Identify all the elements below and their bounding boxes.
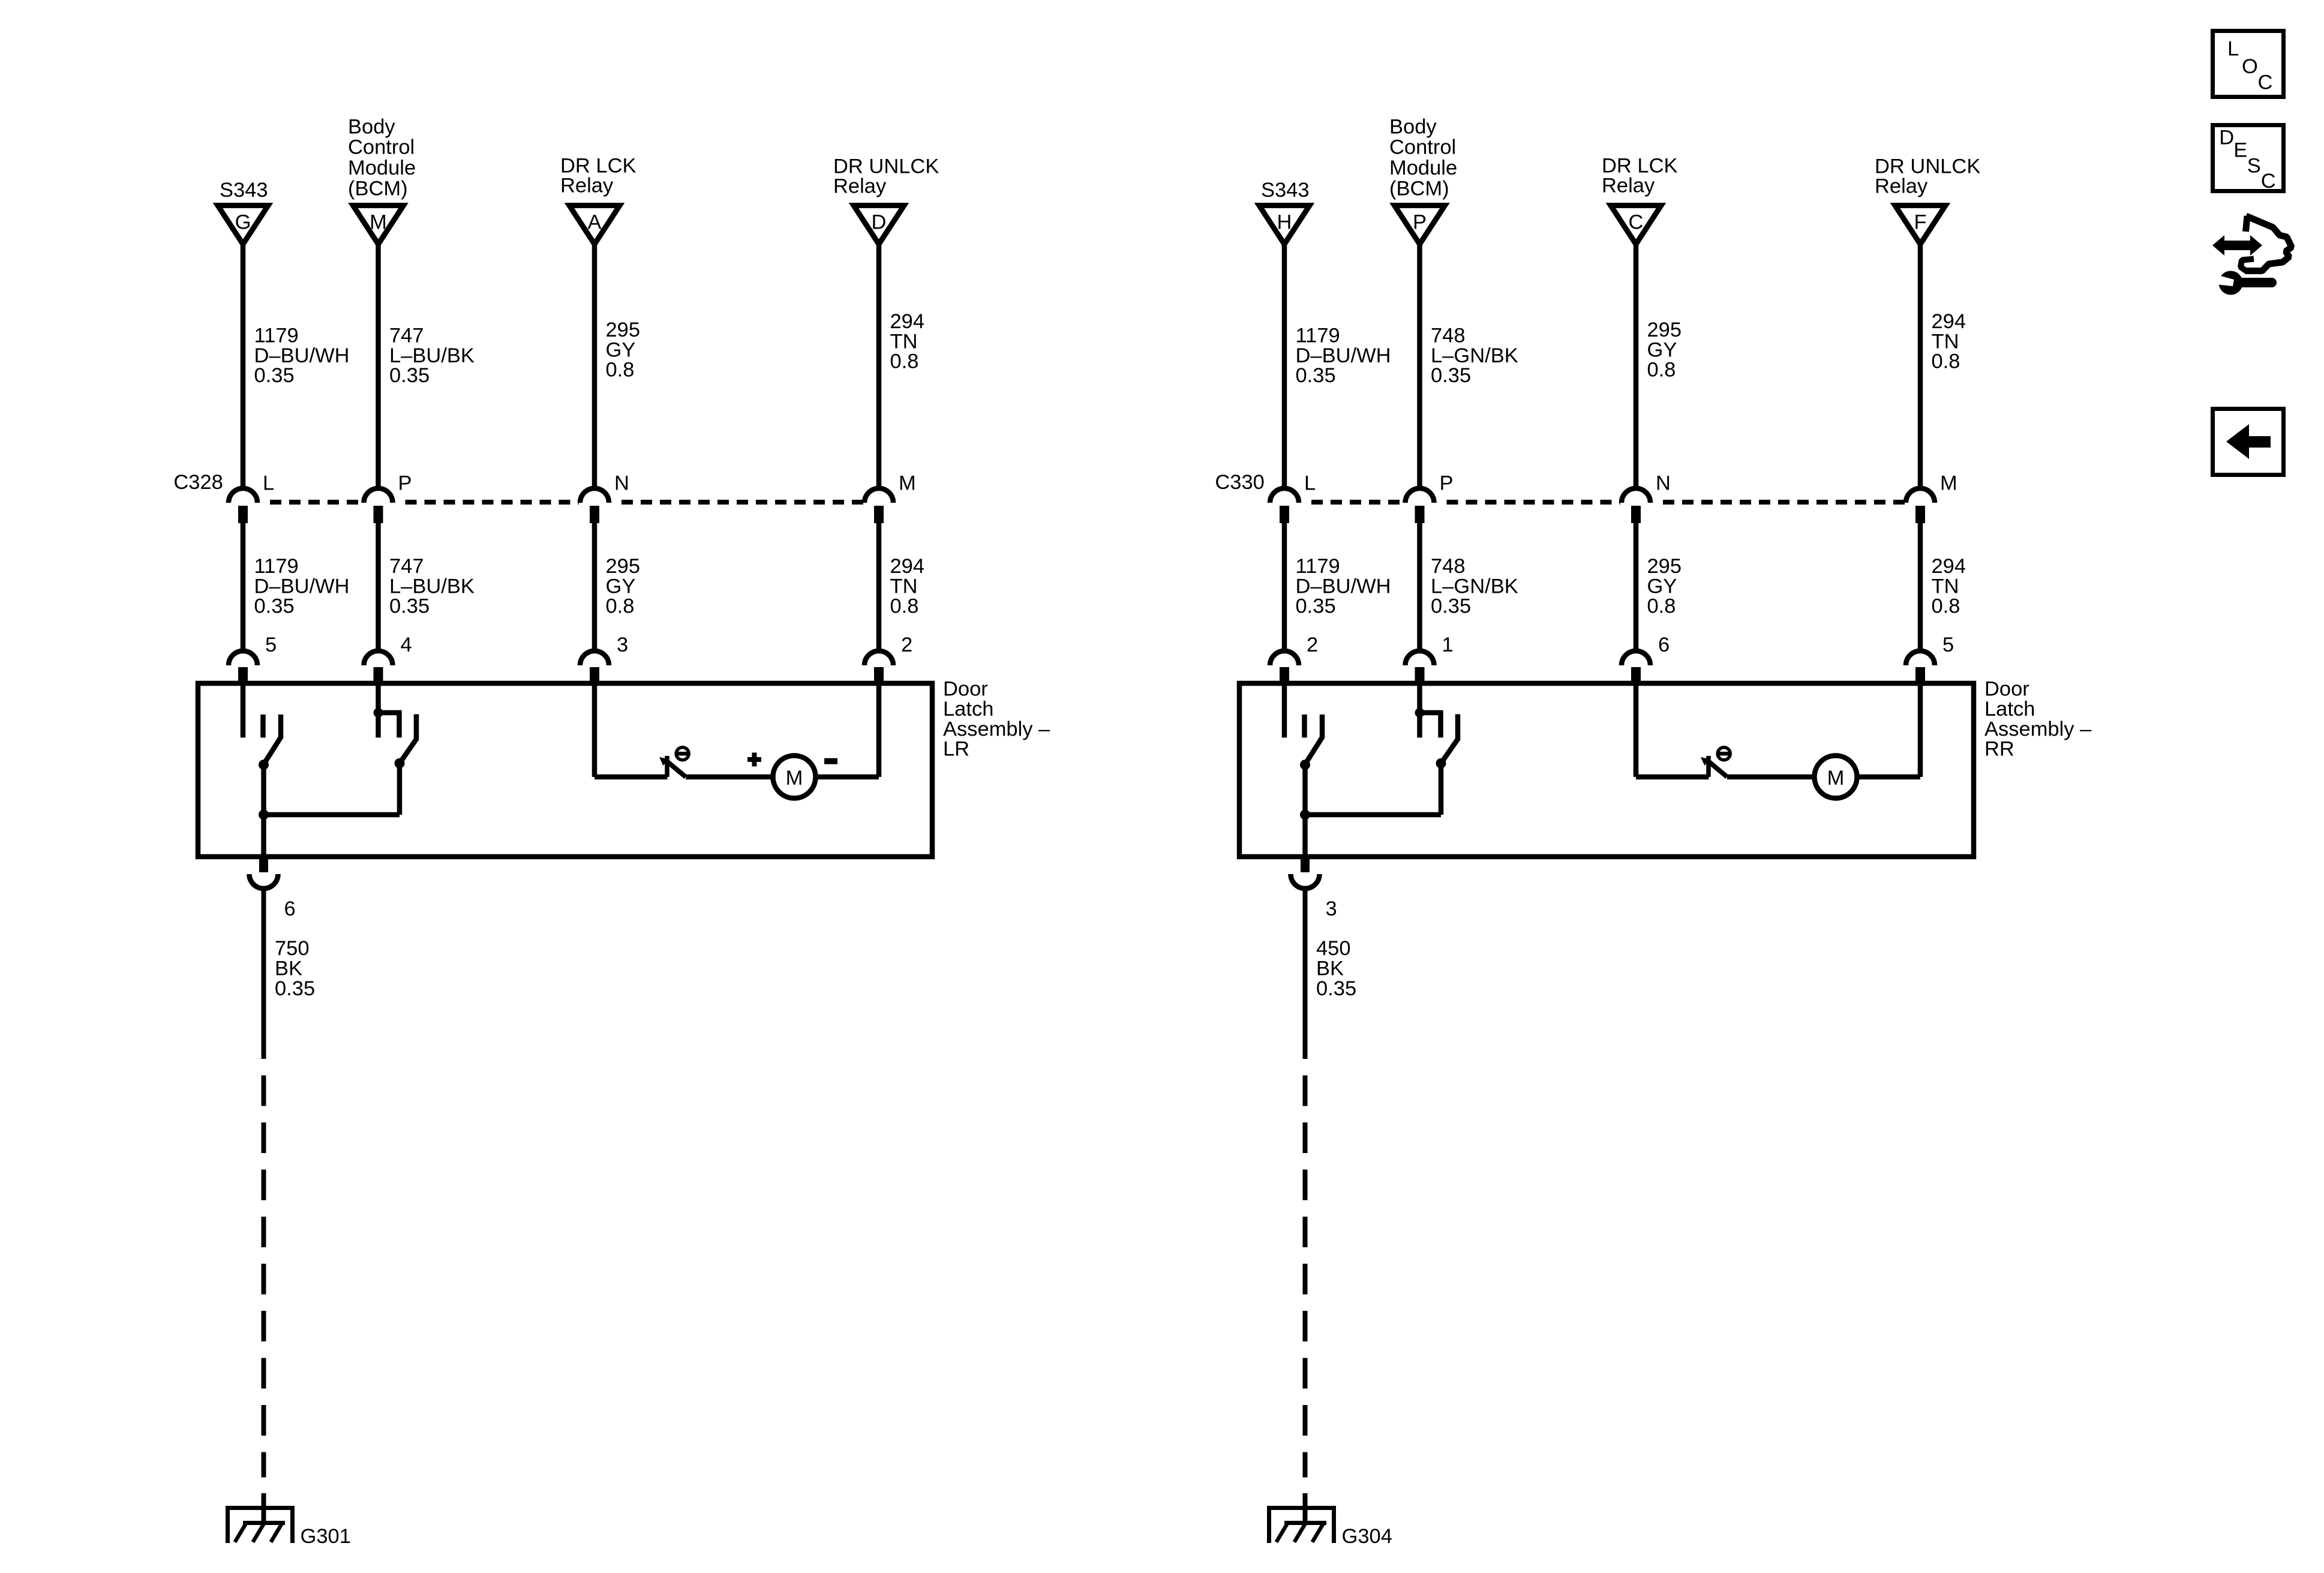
svg-text:GY: GY [1647, 575, 1677, 598]
wire from switch 1 to junction [261, 765, 266, 815]
svg-text:D–BU/WH: D–BU/WH [1296, 575, 1391, 598]
svg-text:BK: BK [1316, 957, 1344, 980]
svg-text:748: 748 [1431, 325, 1466, 347]
svg-text:DR UNLCK: DR UNLCK [833, 155, 939, 178]
wire junction to box bottom [261, 815, 266, 857]
svg-text:M: M [1940, 472, 1957, 495]
wire junction to box bottom [1302, 815, 1308, 857]
door latch connector pin 6 arc [1622, 651, 1650, 665]
off-page connector triangle M [353, 206, 404, 245]
svg-text:DR LCK: DR LCK [560, 154, 636, 177]
svg-text:0.35: 0.35 [1296, 595, 1336, 618]
svg-text:4: 4 [401, 634, 412, 656]
junction wire [264, 812, 400, 818]
svg-text:294: 294 [890, 555, 925, 578]
ground wire dashed segment [262, 1076, 266, 1478]
ground symbol G304 [1303, 1493, 1308, 1523]
svg-text:M: M [1827, 767, 1845, 789]
lock switch 1 pivot dot [1300, 760, 1310, 770]
svg-text:0.8: 0.8 [1932, 350, 1960, 373]
wire stem from triangle D [876, 245, 882, 489]
pin 3 arc [1291, 874, 1320, 888]
svg-text:D: D [872, 211, 887, 234]
connector C328 dashed line [270, 500, 363, 505]
minus sign [824, 758, 837, 764]
motor switch contact post [1706, 756, 1711, 777]
door latch connector pin 2 arc [1270, 651, 1299, 665]
wire 1179 upper segment [1282, 523, 1287, 651]
svg-text:748: 748 [1431, 555, 1466, 578]
svg-text:Relay: Relay [1875, 175, 1928, 198]
svg-text:Control: Control [1389, 136, 1456, 159]
svg-text:1: 1 [1442, 634, 1454, 656]
theta symbol [676, 748, 689, 760]
junction wire [1305, 812, 1442, 818]
lock switch 1 blade [264, 715, 281, 764]
connector C330 cavity M arc [1906, 488, 1935, 503]
svg-text:747: 747 [389, 555, 424, 578]
svg-text:G: G [235, 211, 251, 234]
svg-text:0.35: 0.35 [389, 595, 430, 618]
wire 295 upper segment [592, 523, 597, 651]
svg-text:Assembly –: Assembly – [1984, 718, 2092, 740]
svg-text:(BCM): (BCM) [348, 178, 408, 200]
motor switch contact post [665, 756, 669, 777]
svg-text:D–BU/WH: D–BU/WH [1296, 344, 1391, 367]
off-page connector triangle H [1259, 206, 1310, 245]
door latch assembly RR box [1239, 683, 1974, 857]
svg-text:295: 295 [606, 555, 641, 578]
svg-text:Relay: Relay [560, 175, 614, 197]
svg-text:6: 6 [284, 897, 296, 920]
connector C328 cavity L arc [229, 488, 257, 503]
pin 6 stub [259, 859, 268, 872]
svg-text:0.8: 0.8 [606, 359, 635, 382]
svg-text:1179: 1179 [254, 325, 299, 347]
svg-text:P: P [398, 472, 412, 495]
door latch connector pin 2 arc [864, 651, 893, 665]
lock switch 2 pivot dot [395, 758, 405, 769]
wire stem from triangle F [1918, 245, 1923, 489]
motor branch right wire [876, 686, 882, 777]
motor to right wire [1857, 775, 1921, 780]
ground wire solid segment [262, 888, 266, 1059]
svg-text:Module: Module [348, 157, 416, 179]
motor M RR [1815, 756, 1857, 798]
wire stem from triangle G [241, 245, 246, 489]
svg-text:A: A [587, 211, 601, 234]
connector C330 dashed line [1311, 500, 1404, 505]
svg-text:S343: S343 [220, 179, 268, 202]
svg-text:TN: TN [890, 330, 918, 353]
svg-text:TN: TN [1932, 330, 1959, 353]
off-page connector triangle F [1895, 206, 1945, 245]
svg-text:0.35: 0.35 [1431, 595, 1471, 618]
lock switch 2 feed [1417, 686, 1422, 738]
svg-text:M: M [370, 211, 387, 234]
ground symbol G301 [262, 1493, 266, 1523]
pin 3 stub [1301, 859, 1310, 872]
connector C330 cavity L arc [1270, 488, 1299, 503]
wire from switch 1 to junction [1302, 765, 1308, 815]
svg-text:294: 294 [1932, 310, 1966, 333]
off-page connector triangle C [1611, 206, 1661, 245]
svg-text:6: 6 [1658, 634, 1670, 656]
junction dot [259, 810, 269, 820]
motor switch blade [1709, 762, 1727, 777]
svg-text:0.35: 0.35 [1316, 977, 1356, 1000]
svg-text:Door: Door [943, 678, 988, 701]
ground wire dashed segment [1303, 1076, 1308, 1478]
door latch assembly LR box [198, 683, 932, 857]
svg-text:S343: S343 [1261, 179, 1310, 202]
svg-text:L–BU/BK: L–BU/BK [389, 575, 475, 598]
svg-text:0.8: 0.8 [890, 350, 919, 373]
svg-text:295: 295 [1647, 555, 1682, 578]
svg-text:L–GN/BK: L–GN/BK [1431, 344, 1518, 367]
theta symbol [1718, 748, 1730, 760]
lock switch 1 contacts [1282, 686, 1287, 738]
motor branch left wire [592, 686, 597, 777]
svg-text:3: 3 [617, 634, 628, 656]
door latch connector pin 5 arc [1906, 651, 1935, 665]
svg-text:294: 294 [1932, 555, 1966, 578]
svg-text:DR LCK: DR LCK [1602, 154, 1678, 177]
svg-text:2: 2 [901, 634, 912, 656]
svg-text:295: 295 [1647, 319, 1682, 341]
svg-text:F: F [1914, 211, 1926, 234]
svg-text:DR UNLCK: DR UNLCK [1875, 155, 1980, 178]
svg-text:2: 2 [1307, 634, 1318, 656]
compare vehicle icon car outline [2246, 216, 2248, 232]
motor branch right wire [1918, 686, 1923, 777]
wire 294 upper segment [1918, 523, 1923, 651]
svg-text:G301: G301 [301, 1525, 351, 1548]
svg-text:C328: C328 [173, 471, 223, 494]
lock switch 1 pivot dot [259, 760, 269, 770]
svg-text:0.35: 0.35 [275, 977, 315, 1000]
svg-text:GY: GY [606, 575, 636, 598]
svg-text:D: D [2219, 127, 2234, 149]
svg-text:L: L [263, 472, 274, 495]
connector C328 cavity M arc [864, 488, 893, 503]
motor branch left wire [1634, 686, 1639, 777]
svg-text:295: 295 [606, 319, 641, 341]
off-page connector triangle D [854, 206, 904, 245]
junction dot [1300, 810, 1310, 820]
svg-text:GY: GY [1647, 338, 1677, 361]
svg-text:N: N [1656, 472, 1671, 495]
svg-text:O: O [2242, 55, 2258, 78]
svg-text:Latch: Latch [943, 698, 993, 721]
svg-text:0.8: 0.8 [606, 595, 635, 618]
svg-text:Relay: Relay [1602, 175, 1655, 197]
svg-text:0.35: 0.35 [389, 364, 430, 387]
svg-text:0.8: 0.8 [1647, 595, 1676, 618]
wire 295 upper segment [1634, 523, 1639, 651]
door latch connector pin 1 arc [1406, 651, 1434, 665]
svg-text:P: P [1413, 211, 1427, 234]
svg-text:0.8: 0.8 [890, 595, 919, 618]
svg-text:L–BU/BK: L–BU/BK [389, 344, 475, 367]
svg-text:L–GN/BK: L–GN/BK [1431, 575, 1518, 598]
wire 294 upper segment [876, 523, 882, 651]
lock switch 2 feed [376, 686, 381, 738]
svg-text:Control: Control [348, 136, 415, 159]
ground wire solid segment [1303, 888, 1308, 1059]
wire from switch 2 to junction [397, 763, 403, 815]
wire stem from triangle A [592, 245, 597, 489]
lock switch 2 pivot dot [1436, 758, 1446, 769]
svg-text:5: 5 [265, 634, 277, 656]
svg-text:D–BU/WH: D–BU/WH [254, 344, 350, 367]
svg-text:750: 750 [275, 937, 310, 960]
svg-text:G304: G304 [1342, 1525, 1392, 1548]
compare vehicle icon double arrow [2212, 235, 2262, 256]
svg-text:3: 3 [1326, 897, 1337, 920]
motor M LR [773, 756, 816, 798]
wire stem from triangle P [1417, 245, 1422, 489]
lock switch 1 blade [1305, 715, 1323, 764]
svg-text:C: C [1629, 211, 1644, 234]
wire stem from triangle C [1634, 245, 1639, 489]
svg-text:LR: LR [943, 738, 969, 761]
wire from switch 2 to junction [1439, 763, 1444, 815]
LOC button [2213, 31, 2284, 97]
svg-text:450: 450 [1316, 937, 1351, 960]
off-page connector triangle P [1395, 206, 1445, 245]
svg-text:Body: Body [1389, 115, 1437, 138]
svg-text:Door: Door [1984, 678, 2029, 701]
svg-text:M: M [899, 472, 916, 495]
svg-text:747: 747 [389, 325, 424, 347]
svg-text:1179: 1179 [254, 555, 299, 578]
pin 6 arc [250, 874, 278, 888]
svg-text:GY: GY [606, 338, 636, 361]
lock switch 1 contacts [241, 686, 246, 738]
svg-text:Relay: Relay [833, 175, 887, 198]
svg-text:P: P [1440, 472, 1454, 495]
wire stem from triangle M [376, 245, 381, 489]
motor branch wire to switch [594, 775, 668, 780]
wire stem from triangle H [1282, 245, 1287, 489]
motor to right wire [816, 775, 879, 780]
compare vehicle icon wrench [2239, 278, 2272, 287]
svg-text:L: L [1304, 472, 1316, 495]
wire 747 upper segment [376, 523, 381, 651]
connector C328 cavity N arc [580, 488, 609, 503]
svg-text:0.35: 0.35 [254, 364, 295, 387]
svg-text:1179: 1179 [1296, 325, 1340, 347]
door latch connector pin 4 arc [364, 651, 393, 665]
svg-text:H: H [1277, 211, 1292, 234]
svg-text:Latch: Latch [1984, 698, 2035, 721]
lock switch 2 blade [1441, 715, 1458, 764]
motor switch to motor wire [1727, 775, 1815, 780]
off-page connector triangle G [218, 206, 268, 245]
svg-text:1179: 1179 [1296, 555, 1340, 578]
svg-text:BK: BK [275, 957, 302, 980]
door latch connector pin 5 arc [229, 651, 257, 665]
connector C328 cavity P arc [364, 488, 393, 503]
motor switch to motor wire [686, 775, 773, 780]
motor branch wire to switch [1636, 775, 1709, 780]
svg-text:Module: Module [1389, 157, 1457, 179]
svg-text:(BCM): (BCM) [1389, 178, 1449, 200]
svg-text:294: 294 [890, 310, 925, 333]
plus sign [747, 757, 761, 762]
lock switch 2 blade [400, 715, 416, 764]
back arrow button [2213, 409, 2284, 475]
svg-text:M: M [786, 767, 803, 789]
wire 748 upper segment [1417, 523, 1422, 651]
svg-text:S: S [2247, 155, 2261, 178]
motor switch blade [668, 762, 686, 777]
svg-text:Assembly –: Assembly – [943, 718, 1050, 740]
svg-text:E: E [2233, 139, 2247, 162]
svg-text:0.8: 0.8 [1647, 359, 1676, 382]
wire 1179 upper segment [241, 523, 246, 651]
svg-text:N: N [614, 472, 629, 495]
svg-text:TN: TN [890, 575, 918, 598]
svg-text:0.8: 0.8 [1932, 595, 1960, 618]
svg-text:L: L [2227, 38, 2239, 61]
svg-text:C330: C330 [1215, 471, 1264, 494]
svg-text:0.35: 0.35 [1296, 364, 1336, 387]
svg-text:0.35: 0.35 [1431, 364, 1471, 387]
door latch connector pin 3 arc [580, 651, 609, 665]
svg-text:C: C [2261, 170, 2276, 193]
svg-text:RR: RR [1984, 738, 2014, 761]
svg-text:C: C [2258, 71, 2273, 94]
svg-text:0.35: 0.35 [254, 595, 295, 618]
connector C330 cavity P arc [1406, 488, 1434, 503]
svg-text:D–BU/WH: D–BU/WH [254, 575, 350, 598]
off-page connector triangle A [569, 206, 620, 245]
svg-text:5: 5 [1942, 634, 1954, 656]
svg-text:TN: TN [1932, 575, 1959, 598]
svg-text:Body: Body [348, 115, 395, 138]
DESC button [2213, 125, 2284, 191]
connector C330 cavity N arc [1622, 488, 1650, 503]
